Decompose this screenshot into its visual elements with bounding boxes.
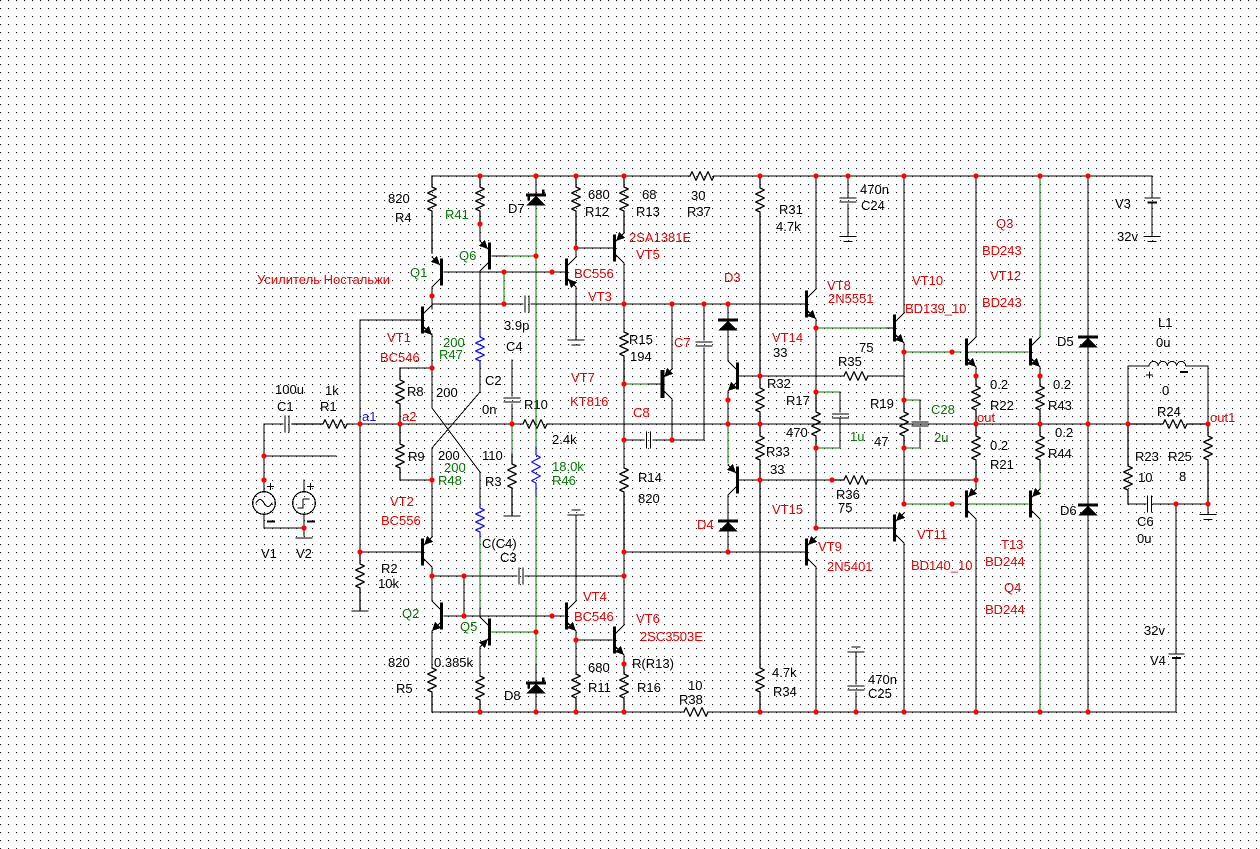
svg-text:820: 820 [388,655,410,670]
wire Q1 collector to rail [431,287,433,304]
wire T13 emitter [975,480,977,489]
junction VT7 base [621,381,626,386]
junction V1 plus [261,477,266,482]
transistor VT5 [613,236,616,260]
junction bottom rail [533,709,538,714]
svg-text:C1: C1 [277,399,294,414]
wire VT2 emitter to junction [431,480,433,536]
resistor R25 [1204,424,1213,504]
green wire to VT15 [727,424,729,463]
inductor L1 [1127,366,1129,424]
resistor R46 blue [532,447,541,496]
wire VT8 emitter [815,319,817,328]
junction R19 top [901,397,906,402]
junction top rail [533,173,538,178]
svg-text:0u: 0u [1137,531,1151,546]
svg-text:32v: 32v [1117,229,1138,244]
wire D5-rail [1087,348,1089,424]
junction VT12 top [1037,173,1042,178]
wire R35 net [760,375,844,377]
wire VT2 collector [431,567,433,576]
transistor Q1 [440,260,443,284]
transistor Q5 [488,620,491,644]
wire VAS rail y=304 [432,303,523,305]
source V1 [253,492,276,515]
wire x=464 [463,576,465,616]
junction bottom rail [573,709,578,714]
svg-text:820: 820 [638,491,660,506]
junction VT9 emitter [813,525,818,530]
svg-text:8: 8 [1179,469,1186,484]
wire rail-D6 [1087,424,1089,505]
junction VT12 emitter [1037,373,1042,378]
wire Q2 emitter [431,631,433,668]
junction VT10 emitter [901,349,906,354]
junction bottom rail [477,709,482,714]
ground R3 [504,515,520,517]
svg-text:R23: R23 [1135,449,1159,464]
wire bias y=552 [360,551,421,553]
battery V3 [1145,197,1160,199]
wire VT6 emitter [623,655,625,664]
resistor R21 [972,424,981,480]
transistor VT10 [893,316,896,340]
junction D4 bottom [725,549,730,554]
junction C7 top [701,301,706,306]
wire x=624 R15-C8 [623,384,625,440]
transistor VT2 [421,540,424,564]
resistor R5b 0.385k [476,676,485,712]
transistor Q6 [488,244,491,268]
svg-text:2u: 2u [934,430,948,445]
source V2 [293,492,316,515]
transistor VT9 [805,540,808,564]
svg-text:2N5401: 2N5401 [827,559,873,574]
junction R41 [477,221,482,226]
svg-text:VT3: VT3 [588,289,612,304]
wire VT1 collector [431,304,433,309]
junction Q3 top [973,173,978,178]
wire VT5 base [576,247,613,249]
svg-text:C4: C4 [506,339,523,354]
junction bottom rail [973,709,978,714]
junction C8 right [669,437,674,442]
junction D5 top [1085,173,1090,178]
junction VT14 base [757,373,762,378]
wire Q6 collector down [479,271,481,331]
svg-text:820: 820 [388,191,410,206]
wire R8 top [400,367,432,369]
transistor VT14 [736,364,739,388]
junction x952 y352 [949,349,954,354]
wire D3-VT14 [727,331,729,361]
wire -rail bottom y=712 [432,711,684,713]
junction VT2-C3 [429,573,434,578]
junction C4 left [501,301,506,306]
wire T13 collector [975,519,977,712]
svg-text:R34: R34 [773,684,797,699]
junction R25 bottom [1205,501,1210,506]
battery V4 [1169,653,1184,655]
svg-text:VT9: VT9 [818,539,842,554]
junction base wire x552 [549,613,554,618]
svg-text:C28: C28 [931,402,955,417]
svg-text:BD139_10: BD139_10 [905,301,966,316]
junction top rail [621,173,626,178]
svg-text:R31: R31 [779,202,803,217]
wire green column x=536 upper [535,206,537,447]
svg-text:Q1: Q1 [410,265,427,280]
junction R17 bottom [813,445,818,450]
svg-text:C6: C6 [1137,514,1154,529]
svg-text:32v: 32v [1144,623,1165,638]
svg-text:KT816: KT816 [570,394,608,409]
green base link lower [969,503,1029,505]
svg-text:0u: 0u [1156,335,1170,350]
svg-text:18.0k: 18.0k [552,459,584,474]
green wire R48-Q5 [479,538,481,608]
svg-text:680: 680 [588,187,610,202]
svg-text:BC546: BC546 [380,350,420,365]
junction VT4 emitter [573,637,578,642]
capacitor C30 1u bracket [816,391,840,393]
svg-text:out1: out1 [1210,410,1235,425]
wire VT1 emitter [431,334,433,368]
svg-text:R48: R48 [438,473,462,488]
green wire lower driver bases [904,503,961,505]
wire Q5 emitter [479,647,481,676]
junction C4 green link top [501,269,506,274]
svg-text:D7: D7 [508,201,525,216]
capacitor C6 [1147,496,1149,512]
resistor R47 blue [476,331,485,367]
junction out [973,421,978,426]
wire VT3 emitter to ground [575,287,577,340]
svg-text:VT12: VT12 [990,268,1021,283]
wire VT10 collector [903,176,905,313]
svg-text:470n: 470n [868,672,897,687]
svg-text:BC556: BC556 [381,513,421,528]
ground VT3 [568,339,584,341]
wire VT1 base [360,319,421,321]
wire x=624 C8-R14 [623,440,625,468]
svg-text:10k: 10k [378,576,399,591]
svg-text:2SC3503E: 2SC3503E [640,629,703,644]
wire C3 y=576 [432,575,517,577]
green wire VT8-VT10 [816,327,886,329]
svg-text:0.2: 0.2 [990,438,1008,453]
junction C2-R10 [509,421,514,426]
resistor R15 [620,332,629,384]
junction x728 mid [725,397,730,402]
junction out1 [1205,421,1210,426]
svg-text:Усилитель Ностальжи: Усилитель Ностальжи [257,272,390,287]
wire VT14 base [739,375,760,377]
diode D5 [1080,336,1097,339]
svg-text:R1: R1 [320,399,337,414]
wire R41-Q6 [479,224,481,241]
green wire a-b [503,272,505,304]
wire Q6 base [492,255,508,257]
svg-text:T13: T13 [1001,537,1023,552]
svg-text:VT6: VT6 [636,611,660,626]
wire VT15 collector to D4 [727,495,729,521]
wire VT8 collector [815,176,817,289]
resistor R23 [1124,424,1133,504]
wire C6 right [1153,503,1208,505]
resistor R37 in top rail [690,172,714,181]
svg-text:R5: R5 [396,681,413,696]
resistor R34 [756,480,765,712]
wire out rail y=424 [264,423,283,425]
junction VT5 base [573,245,578,250]
junction bottom rail [901,709,906,714]
wire to R15 [623,304,625,332]
resistor R41 [476,176,485,224]
ground R2 [352,610,368,612]
green wire upper driver bases [904,351,961,353]
junction R36 [829,477,834,482]
transistor Q2 [440,604,443,628]
junction a2 [397,421,402,426]
svg-text:VT4: VT4 [583,589,607,604]
svg-text:VT7: VT7 [571,370,595,385]
svg-text:BC556: BC556 [574,266,614,281]
junction VT10 top [901,173,906,178]
resistor R1 [292,420,349,429]
wire R35 right [868,375,904,377]
wire V2 stem [303,480,305,492]
junction D3 top [725,301,730,306]
diode D6 [1080,504,1097,507]
resistor R31 [756,176,765,376]
wire V4 column [1175,504,1177,653]
wire x816 down [815,328,817,392]
wire x904 R19-VT11 [903,448,905,504]
svg-text:BD243: BD243 [982,295,1022,310]
svg-text:a2: a2 [402,409,416,424]
svg-text:33: 33 [773,345,787,360]
wire Q1 base y=272 [444,271,565,273]
wire Q3 collector [975,176,977,337]
wire VT12 emitter [1039,367,1041,376]
resistor R16 [620,664,629,712]
svg-text:R2: R2 [381,561,398,576]
svg-text:0.385k: 0.385k [434,655,474,670]
svg-text:D8: D8 [504,688,521,703]
svg-text:R47: R47 [439,347,463,362]
svg-text:R33: R33 [766,444,790,459]
junction rail x728 [725,421,730,426]
svg-text:R35: R35 [838,354,862,369]
svg-text:BD244: BD244 [985,554,1025,569]
svg-text:0.2: 0.2 [1055,425,1073,440]
resistor R2 [356,552,365,610]
resistor R32 [756,376,765,424]
green collector column VT12 [1039,176,1041,337]
wire VT10 emitter [903,343,905,352]
junction base wire x=464 [461,613,466,618]
wire x=624 552-576 [623,552,625,576]
svg-text:C(C4): C(C4) [482,536,517,551]
svg-text:110: 110 [482,448,503,463]
svg-text:194: 194 [630,349,652,364]
svg-text:Q5: Q5 [460,619,477,634]
capacitor C1 [284,416,286,432]
wire x=624 to VT6 [623,576,625,624]
svg-text:a1: a1 [362,409,376,424]
svg-text:VT14: VT14 [772,330,803,345]
svg-text:R12: R12 [585,204,609,219]
svg-text:R43: R43 [1048,398,1072,413]
capacitor C8 [646,432,648,448]
svg-text:R3: R3 [485,474,502,489]
svg-text:R11: R11 [588,680,611,695]
svg-text:VT11: VT11 [917,527,947,542]
green base link upper [969,351,1029,353]
junction a1-VT2 base [357,549,362,554]
junction rail x1088 [1085,421,1090,426]
svg-text:2N5551: 2N5551 [828,291,874,306]
svg-text:Q6: Q6 [459,248,476,263]
svg-text:V1: V1 [261,546,277,561]
ground VT4 collector flipped [568,514,584,516]
svg-text:0.2: 0.2 [990,377,1008,392]
wire Q2 collector [431,576,433,601]
svg-text:VT2: VT2 [390,494,414,509]
junction R19 bottom [901,445,906,450]
svg-text:200: 200 [436,385,458,400]
wire cross leg B [431,368,433,408]
svg-text:100u: 100u [275,382,304,397]
svg-text:10: 10 [1138,470,1152,485]
transistor VT11 [893,516,896,540]
transistor VT6 [613,628,616,652]
wire D8 bottom [535,694,537,712]
svg-text:R19: R19 [870,396,894,411]
svg-text:R17: R17 [786,393,810,408]
svg-text:0n: 0n [482,402,496,417]
wire VT14 emitter [727,391,729,424]
transistor VT4 [565,604,568,628]
wire VT15 base [739,479,760,481]
wire R44 to Q4 green [1039,472,1041,489]
svg-text:C25: C25 [868,686,892,701]
junction Q1 [429,293,434,298]
junction C3 right [621,573,626,578]
wire VT4 emitter [575,631,577,640]
transistor VT1 [421,308,424,332]
svg-text:BD140_10: BD140_10 [911,558,972,573]
transistor Q4 lower-right [1029,492,1032,516]
resistor R22 [972,376,981,424]
junction C25 bottom [853,709,858,714]
capacitor C28 bracket [904,399,920,401]
svg-text:75: 75 [859,340,873,355]
junction bottom rail [813,709,818,714]
svg-text:470: 470 [786,425,808,440]
svg-text:3.9p: 3.9p [504,318,529,333]
svg-text:C3: C3 [500,550,517,565]
resistor R44 [1036,424,1045,472]
wire R23-C6 [1128,503,1146,505]
svg-text:R4: R4 [395,210,412,225]
svg-text:BC546: BC546 [574,609,614,624]
resistor R24 [1128,420,1208,429]
wire V1-V2 bottom [264,527,304,529]
svg-text:C8: C8 [633,405,650,420]
svg-text:68: 68 [642,187,656,202]
junction V2 minus [301,525,306,530]
svg-text:R24: R24 [1157,404,1181,419]
svg-text:R38: R38 [679,692,703,707]
junction x952 y504 [949,501,954,506]
svg-text:R41: R41 [445,207,469,222]
resistor R3 [508,454,517,515]
resistor R14 [620,468,629,552]
svg-text:R25: R25 [1168,449,1192,464]
resistor R5 [428,668,437,712]
junction Q6 base net [533,253,538,258]
svg-text:out: out [977,410,995,425]
wire green column x=536 lower [535,496,537,632]
svg-text:C24: C24 [861,198,885,213]
svg-text:30: 30 [691,188,705,203]
wire R9 bottom [400,479,432,481]
green wire to Q5 base [490,631,536,633]
wire x1088 top [1087,176,1089,337]
svg-text:Q3: Q3 [996,216,1013,231]
svg-text:0: 0 [1162,383,1169,398]
ground R25 [1207,504,1209,514]
resistor R12 [572,176,581,248]
junction R21 bottom [973,477,978,482]
diode D7 [535,176,537,195]
svg-text:2SA1381E: 2SA1381E [629,230,691,245]
svg-text:D3: D3 [724,270,741,285]
junction VT8 emitter [813,325,818,330]
junction rail-VT5 [621,301,626,306]
resistor R9 [396,424,405,480]
green collector column Q4 [1039,519,1041,712]
wire VT3 collector [575,248,577,256]
junction C6-V4 [1173,501,1178,506]
wire R36 right [868,479,976,481]
wire C8 y=440 [624,439,644,441]
svg-text:BD243: BD243 [982,243,1022,258]
wire VT4-VT6 y=640 [576,639,612,641]
wire a1 column [359,320,361,552]
junction VT8 top [813,173,818,178]
wire VT9 collector [815,567,817,712]
junction bottom rail [621,709,626,714]
svg-text:VT10: VT10 [912,273,943,288]
wire stub y=456 [264,455,336,457]
svg-text:R32: R32 [767,376,791,391]
capacitor C25 [848,651,864,653]
svg-text:R9: R9 [408,449,425,464]
junction Q1 base mid [549,269,554,274]
svg-text:47: 47 [874,434,888,449]
svg-text:D4: D4 [697,517,714,532]
svg-text:R(R13): R(R13) [632,656,674,671]
junction bottom rail [1085,709,1090,714]
svg-text:R15: R15 [629,332,653,347]
junction top rail [573,173,578,178]
junction D7 top [533,173,538,178]
svg-text:BD244: BD244 [985,602,1025,617]
resistor R33 [756,424,765,480]
